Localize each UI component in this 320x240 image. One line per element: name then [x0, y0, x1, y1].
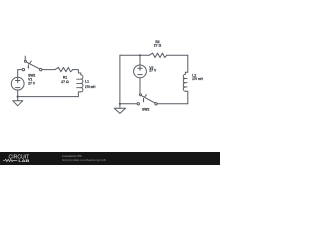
svg-text:SW2: SW2: [142, 108, 149, 112]
inductor L2: [183, 74, 187, 91]
svg-text:270 mH: 270 mH: [85, 85, 96, 89]
wire: R1 to L1 top: [73, 70, 81, 75]
wire: V1 top to SW1 left terminal: [18, 70, 23, 78]
inductor L1: [77, 75, 83, 92]
wire: L2 bottom to bottom-right corner: [185, 91, 187, 104]
wire: bottom rail right segment (SW2 to L2): [157, 103, 188, 105]
svg-text:http://circuitlab.com/c6aefw1m: http://circuitlab.com/c6aefw1mgznsi5/: [62, 158, 106, 162]
svg-text:27 V: 27 V: [149, 69, 157, 73]
svg-text:L1: L1: [85, 80, 89, 84]
wire: L1 bottom to bottom rail: [18, 92, 81, 97]
svg-text:LAB: LAB: [18, 159, 29, 163]
wire: top rail right segment: [167, 54, 188, 56]
CircuitLab logo resistor zigzag: [3, 159, 17, 161]
wire: top rail left segment: [120, 54, 149, 56]
footer bar: [0, 152, 220, 165]
wire: SW1 to R1: [42, 69, 55, 71]
resistor R1: [55, 67, 73, 71]
junction node at V2 top: [139, 54, 141, 56]
switch SW2: [137, 94, 157, 105]
junction node at V1 bottom: [17, 96, 19, 98]
switch SW1: [22, 56, 42, 71]
svg-text:270 mH: 270 mH: [192, 77, 203, 81]
resistor R2: [149, 53, 167, 57]
wire: V1 bottom lead: [17, 90, 19, 97]
wire: right side top to L2: [185, 55, 187, 74]
svg-text:27 Ω: 27 Ω: [154, 44, 162, 48]
svg-text:27 Ω: 27 Ω: [61, 80, 69, 84]
wire: V2 top lead: [139, 55, 141, 65]
voltage source V2: [134, 65, 147, 78]
voltage source V1: [11, 77, 24, 90]
wire: bottom rail left segment (ground to SW2): [120, 103, 137, 105]
ground (right circuit): [114, 104, 125, 114]
wire: right circuit left side: [119, 55, 121, 104]
junction node at ground (right circuit): [119, 103, 121, 105]
ground (left circuit): [13, 97, 23, 106]
wire: V2 bottom lead to SW2 common: [139, 78, 141, 94]
svg-text:27 V: 27 V: [28, 82, 36, 86]
